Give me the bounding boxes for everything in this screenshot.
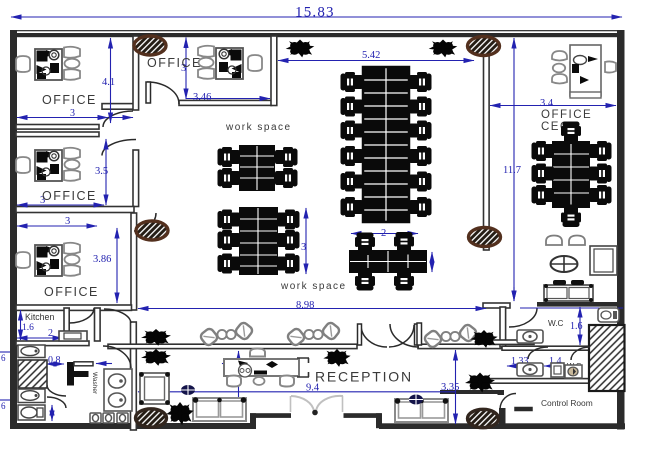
workspace tableA — [218, 145, 298, 191]
wall bath T vertical — [67, 362, 74, 386]
dim 5.42 — [278, 60, 474, 62]
svg-text:4.1: 4.1 — [102, 77, 115, 88]
svg-text:3.5: 3.5 — [95, 166, 108, 177]
washer basins — [104, 369, 132, 411]
wall control room top — [440, 390, 499, 394]
wall office3 bottom — [16, 305, 132, 310]
wc2 small wc — [565, 365, 582, 378]
wall office2 right vertical — [133, 150, 139, 207]
wall office3 right vertical — [131, 213, 137, 310]
svg-text:1.6: 1.6 — [22, 323, 34, 333]
svg-text:6: 6 — [1, 401, 6, 411]
door arc office1 entry — [103, 111, 133, 127]
column hatched mid-right — [469, 228, 501, 247]
ceo conference table — [532, 122, 612, 228]
door arc wc2 right — [571, 347, 590, 360]
wc upper toilet — [517, 330, 543, 343]
armchair pair 1 — [199, 321, 254, 347]
wall kitchen right vertical — [95, 308, 101, 341]
door arc reception double right — [389, 325, 414, 347]
reception desk — [224, 358, 309, 377]
dim ceo bottom line — [520, 307, 623, 309]
dim arrow washer — [96, 363, 112, 365]
office3 desk — [16, 243, 80, 276]
wall outer-left — [10, 30, 17, 429]
wall office1 bottom band B — [16, 132, 99, 137]
plant bottom left — [166, 402, 193, 425]
dim 6 left lower — [0, 399, 10, 401]
office1 desk — [16, 47, 80, 80]
wall top-office bottom — [179, 100, 272, 105]
dim 1.33 — [507, 365, 538, 367]
armchair pair 2 — [286, 321, 341, 347]
svg-text:OFFICE: OFFICE — [44, 285, 99, 299]
dim 8.98 — [138, 308, 486, 310]
wall reception top right — [418, 344, 502, 348]
ceo cabinet — [590, 246, 617, 275]
wall bath T horizontal — [74, 371, 89, 377]
plant reception right lower — [465, 373, 495, 393]
svg-text:W.C: W.C — [548, 319, 564, 328]
dim 0.8 — [46, 363, 64, 365]
wall outer-top — [10, 30, 624, 31]
door arc entrance left — [291, 396, 314, 412]
conference long table — [341, 67, 432, 222]
svg-text:OFFICE: OFFICE — [42, 93, 97, 107]
door arc wc top — [509, 308, 537, 327]
column hatched bottom-left — [136, 409, 167, 427]
svg-text:Kitchen: Kitchen — [25, 312, 54, 322]
svg-text:2: 2 — [381, 228, 386, 239]
door arc washer — [103, 346, 131, 368]
dim 15.83 top — [11, 16, 622, 18]
wall outer-bottom segments — [10, 423, 256, 429]
dim 11.7 vertical — [513, 38, 515, 301]
wc bench chairs — [553, 280, 566, 285]
ceo oval table — [551, 256, 578, 272]
svg-text:3.46: 3.46 — [193, 92, 211, 103]
dim arrow corridor1 — [112, 117, 133, 119]
svg-text:OFFICE: OFFICE — [147, 56, 202, 70]
door arc office3 entry — [134, 213, 156, 231]
dim 1.4 — [544, 365, 569, 367]
dim 3 workspace vertical — [305, 208, 307, 274]
wall top-office left vertical — [133, 36, 139, 110]
door arc office2 entry — [102, 140, 136, 156]
column hatched bottom-right — [468, 409, 499, 427]
bath toilet — [18, 405, 45, 420]
column hatched top-center — [468, 37, 500, 56]
door arc top-office — [147, 82, 179, 104]
ceo chairs pair lower — [546, 236, 562, 246]
plant reception mid — [323, 349, 350, 367]
dim 3 office1 — [17, 117, 108, 119]
dim 2 tableC — [351, 233, 418, 235]
bath sink counter 2 — [18, 389, 45, 403]
wall wc mid floor — [490, 340, 534, 344]
wall office2 bottom — [16, 207, 134, 213]
wall top-office right vertical — [271, 36, 277, 106]
ceo desk — [552, 45, 616, 98]
svg-text:RECEPTION: RECEPTION — [315, 369, 413, 385]
dim 3.4 — [490, 105, 616, 107]
dim arrow corridor mid — [222, 363, 238, 365]
door arc control room — [500, 394, 516, 410]
dim 3 top-office vertical — [185, 38, 187, 100]
wall control room left stub upper — [498, 390, 505, 395]
dim 3.86 vertical — [116, 228, 118, 303]
svg-text:3.86: 3.86 — [93, 254, 111, 265]
symbol oval cross 1 — [181, 385, 195, 395]
dim 1.6 kitchen vertical — [20, 310, 22, 340]
wall wc top left — [483, 303, 510, 308]
wall stairs-block border — [589, 325, 625, 391]
door arc bath1 — [47, 385, 66, 396]
svg-text:11.7: 11.7 — [503, 165, 521, 176]
column hatched mid-left — [136, 221, 168, 240]
svg-text:8.98: 8.98 — [296, 300, 314, 311]
svg-text:OFFICE: OFFICE — [541, 109, 592, 121]
plant reception right top — [470, 330, 497, 348]
plant top 1 — [286, 40, 315, 58]
wall outer-right — [617, 30, 625, 430]
wc2 toilet — [517, 363, 543, 376]
svg-text:3.35: 3.35 — [441, 382, 459, 393]
svg-text:3: 3 — [301, 242, 306, 253]
svg-text:OFFICE: OFFICE — [42, 189, 97, 203]
symbol oval cross 2 — [409, 395, 423, 405]
door arc kitchen — [69, 308, 94, 323]
svg-text:2: 2 — [48, 328, 53, 339]
wall wc2 bottom — [490, 379, 589, 384]
ceo bench bottom — [544, 284, 593, 302]
wall center column vertical — [484, 52, 490, 250]
door arc corridor-hall — [104, 309, 131, 323]
svg-text:1.6: 1.6 — [570, 321, 583, 332]
wc2 sink box — [551, 363, 564, 377]
wall kitchen left vertical — [64, 308, 69, 332]
hatched stair block left — [18, 360, 47, 388]
dim 3.5 vertical — [105, 139, 107, 205]
svg-text:Control Room: Control Room — [541, 398, 593, 408]
reception stool — [250, 349, 265, 357]
wall wc2 top — [502, 346, 590, 350]
svg-text:work space: work space — [280, 281, 347, 292]
plant corridor upper — [141, 329, 171, 346]
svg-text:3: 3 — [70, 108, 75, 119]
office2 desk — [16, 148, 80, 181]
svg-text:0.8: 0.8 — [48, 355, 61, 366]
wall washer right vertical — [131, 322, 137, 430]
dim wc small vertical — [513, 287, 515, 301]
svg-text:6: 6 — [1, 353, 6, 363]
dim 6 left upper — [0, 351, 10, 353]
washer units bottom — [90, 413, 128, 423]
column hatched top-left — [134, 36, 166, 55]
armchair pair 3 — [423, 323, 478, 349]
top-office desk mirrored — [198, 46, 262, 79]
plant corridor lower — [141, 349, 171, 366]
wall wc top dark — [537, 302, 618, 307]
door arc entrance right — [316, 396, 343, 412]
door arc reception double left — [361, 325, 387, 347]
sofa bottom right — [395, 398, 449, 422]
dim 2 kitchen — [17, 337, 63, 339]
side table left — [139, 372, 170, 405]
dim reception mid vertical — [238, 351, 240, 420]
wc upper tub — [598, 308, 619, 322]
dim 1 tableC side — [431, 252, 433, 272]
svg-text:5.42: 5.42 — [362, 50, 380, 61]
dim wc 1.6 vertical — [579, 307, 581, 345]
dim 3.46 — [186, 98, 270, 100]
wall kitchen bottom — [16, 341, 89, 346]
dim 9.4 — [138, 391, 455, 393]
svg-text:work space: work space — [225, 122, 292, 133]
wall corridor stub — [102, 104, 136, 110]
kitchen counter — [59, 331, 87, 341]
door arc wc2 left — [528, 347, 548, 359]
door arc bath2 — [47, 397, 66, 408]
wall wc left vertical — [500, 307, 506, 347]
wall bath ledge — [74, 362, 93, 366]
dim 3 office2 — [17, 204, 104, 206]
door arc hall-wc — [390, 324, 419, 347]
svg-text:15.83: 15.83 — [295, 5, 335, 21]
dim 4.1 vertical — [110, 38, 112, 123]
dim left bath vertical — [51, 405, 53, 421]
wall control room left stub lower — [499, 408, 506, 426]
bath sink counter 1 — [18, 345, 45, 358]
wall reception top left — [108, 344, 357, 348]
plant top 2 — [429, 40, 458, 58]
svg-text:Washer: Washer — [91, 372, 98, 395]
reception chairs — [227, 376, 241, 387]
svg-text:1: 1 — [430, 257, 434, 267]
svg-text:3.4: 3.4 — [540, 98, 554, 109]
workspace tableB — [218, 207, 300, 275]
sofa bottom left — [193, 397, 247, 421]
workspace tableC horizontal — [349, 232, 427, 291]
wall office1 bottom band A — [16, 125, 99, 130]
dim 3.35 vertical — [455, 350, 457, 424]
svg-text:3: 3 — [65, 216, 70, 227]
dim 3 office3 top — [17, 225, 97, 227]
